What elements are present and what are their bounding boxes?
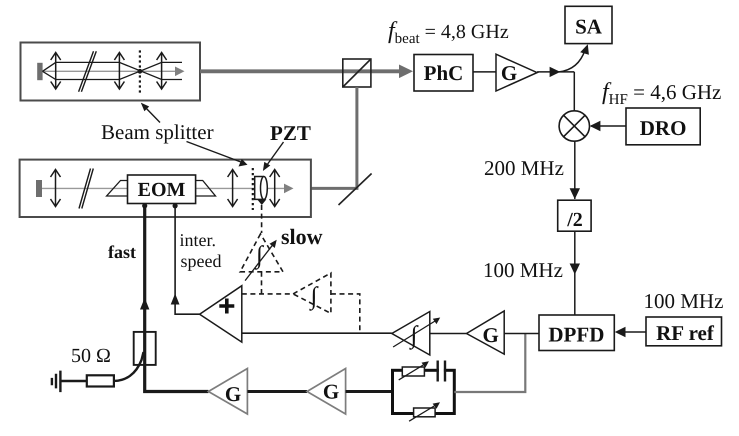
wire DPFD to G: [504, 333, 539, 335]
laser 2 etalon plate: [79, 169, 93, 209]
EOM fast connection dot: [142, 203, 147, 208]
laser 2 output beam to mirror: [311, 187, 359, 190]
lens L6: [270, 170, 280, 207]
slow variable gain arrow: [245, 243, 274, 281]
beam splitter cube: [343, 59, 371, 87]
svg-text:G: G: [323, 380, 339, 404]
laser 1 beam output arrowhead: [175, 67, 185, 77]
svg-text:DRO: DRO: [640, 116, 687, 140]
laser 1 axis beam: [43, 70, 179, 72]
lens L5: [228, 170, 238, 207]
svg-text:/2: /2: [566, 209, 583, 231]
100 MHz arrowhead: [570, 264, 580, 275]
svg-text:100 MHz: 100 MHz: [483, 258, 563, 282]
fast drive line: [145, 205, 209, 391]
laser 1 output beam to cube: [200, 69, 402, 73]
svg-text:speed: speed: [181, 251, 222, 271]
svg-text:DPFD: DPFD: [548, 323, 604, 347]
wire between bottom G amps: [247, 390, 307, 393]
svg-text:RF ref: RF ref: [656, 321, 715, 345]
laser 1 end mirror: [37, 63, 42, 80]
integrator amplifier (loop filter): [392, 312, 430, 356]
svg-text:50 Ω: 50 Ω: [71, 345, 111, 367]
beam cube down to folding mirror: [355, 87, 358, 188]
wire integrator to summing amp: [242, 332, 392, 334]
svg-text:PhC: PhC: [424, 61, 464, 85]
G amplifier (bottom right): [307, 369, 346, 415]
dashed wire into summing amp: [242, 293, 293, 295]
dashed tap wire: [331, 294, 360, 333]
integrator (dashed triangle): [293, 273, 331, 313]
EOM output prism: [196, 181, 216, 197]
summing amp output wire: [175, 205, 200, 314]
wire mixer to /2: [574, 141, 576, 199]
capacitor gap mask: [439, 367, 444, 375]
laser 1 beam envelope: [43, 62, 183, 79]
laser 1 cavity box: [21, 43, 201, 101]
variable resistor bottom: [414, 408, 436, 417]
wire junction down to mixer: [573, 72, 575, 111]
laser 1 beam splitter dotted line: [139, 50, 141, 93]
wire DRO to mixer: [591, 125, 626, 127]
lead-lag network box: [393, 370, 455, 413]
svg-text:SA: SA: [575, 15, 603, 39]
slow actuator amplifier (dashed triangle): [240, 234, 283, 272]
slow branch dashed wire: [261, 272, 263, 294]
termination lead curve: [114, 352, 144, 381]
svg-text:G: G: [483, 323, 499, 347]
cube diagonal: [343, 59, 371, 87]
laser 2 beam arrowhead: [284, 184, 294, 194]
RF arrowhead: [550, 67, 561, 77]
summing amplifier: [200, 286, 242, 342]
DRO box: [626, 108, 700, 145]
svg-text:100 MHz: 100 MHz: [644, 289, 724, 313]
mixer: [559, 111, 589, 141]
PZT callout arrow: [266, 142, 284, 167]
callout arrow to laser1 dotted line: [144, 106, 161, 123]
curve to SA: [559, 50, 585, 72]
wire G to junction: [537, 71, 574, 73]
intracavity etalon plate: [79, 51, 97, 92]
G amplifier (RF): [496, 54, 537, 91]
/2 box: [558, 200, 591, 231]
EOM inter speed connection dot: [173, 203, 178, 208]
svg-text:slow: slow: [281, 224, 323, 249]
feedback wire network to DPFD output: [454, 334, 525, 393]
laser 2 end mirror: [36, 180, 42, 197]
svg-text:Beam splitter: Beam splitter: [101, 120, 214, 144]
lens L4: [51, 170, 61, 207]
svg-text:200 MHz: 200 MHz: [484, 156, 564, 180]
ground symbol: [52, 371, 61, 393]
50 ohm resistor: [87, 375, 114, 386]
combined beam arrowhead into PhC: [399, 65, 413, 79]
laser 2 axis beam: [42, 187, 287, 189]
EOM input prism: [107, 181, 128, 197]
RF ref box: [646, 317, 722, 346]
fast mid arrow: [140, 298, 149, 310]
folding mirror: [339, 174, 372, 206]
variable resistor top: [402, 367, 424, 376]
svg-text:G: G: [225, 382, 241, 406]
PZT mirror curved face: [261, 177, 268, 200]
PhC box: [414, 55, 473, 92]
wire PhC to G: [473, 71, 496, 73]
laser 2 cavity box: [20, 160, 311, 217]
callout arrow to laser2 dotted line: [187, 142, 244, 164]
PZT mirror body: [255, 177, 264, 200]
svg-text:inter.: inter.: [180, 230, 217, 250]
integrator variable arrow: [393, 320, 437, 348]
svg-text:G: G: [501, 61, 517, 85]
wire RF ref to DPFD: [617, 331, 646, 333]
PZT drive dashed line: [261, 205, 263, 233]
G amplifier (loop): [467, 311, 505, 354]
laser 2 beam splitter dotted line: [252, 168, 254, 210]
SA box: [565, 6, 612, 43]
EOM box: [128, 175, 196, 204]
ground lead: [60, 380, 86, 383]
wire G to lead-lag network: [346, 390, 393, 393]
lens L3: [157, 53, 167, 90]
G amplifier (bottom left): [208, 369, 247, 415]
focus dot node: [138, 69, 143, 74]
lens L1: [51, 53, 61, 90]
inter speed mid arrow: [171, 294, 180, 305]
wire G to integrator: [430, 333, 467, 335]
capacitor plates: [438, 361, 445, 382]
DPFD box: [539, 315, 614, 351]
svg-text:EOM: EOM: [138, 179, 186, 201]
PZT actuator wedge: [257, 199, 266, 205]
plus sign: [219, 299, 234, 314]
wire /2 to DPFD: [574, 231, 576, 315]
lens L2: [114, 53, 124, 90]
svg-text:PZT: PZT: [270, 121, 311, 145]
series resistor on fast line: [134, 332, 156, 365]
svg-text:fast: fast: [108, 242, 136, 262]
